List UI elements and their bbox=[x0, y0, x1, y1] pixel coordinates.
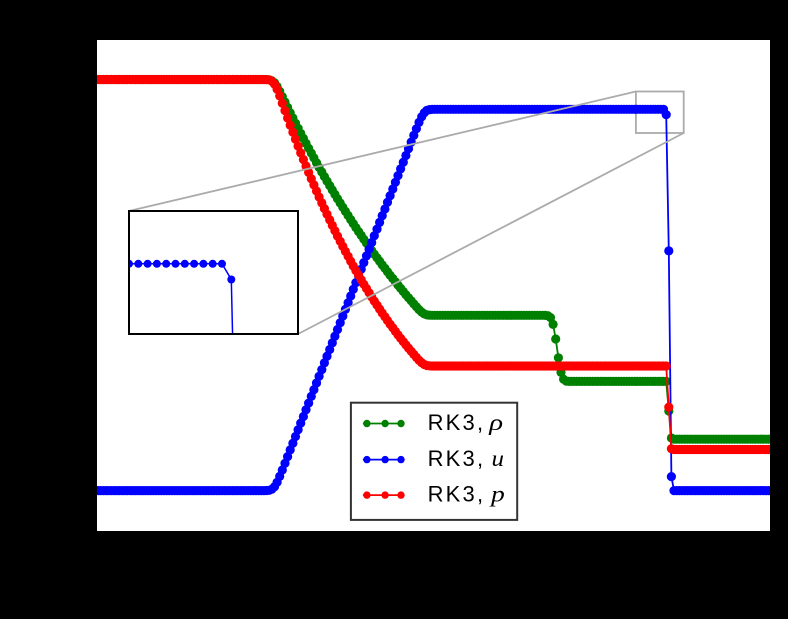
density curve RK3 rho (green) bbox=[94, 75, 774, 444]
zoom indicator rect bbox=[636, 92, 684, 134]
pressure curve RK3 p (red) bbox=[94, 75, 774, 454]
legend entry &#961; bbox=[363, 423, 403, 425]
svg-text:RK3,: RK3, bbox=[428, 446, 486, 471]
svg-text:RK3,: RK3, bbox=[428, 410, 486, 435]
svg-text:u: u bbox=[492, 446, 505, 472]
svg-text:ρ: ρ bbox=[488, 410, 503, 436]
inset curve (blue velocity detail) bbox=[116, 260, 306, 619]
inset connector lines bbox=[129, 92, 636, 212]
legend entry p bbox=[363, 494, 403, 496]
inset axes box bbox=[129, 211, 298, 334]
legend entry u bbox=[363, 459, 403, 461]
svg-text:RK3,: RK3, bbox=[428, 482, 486, 507]
velocity curve RK3 u (blue) bbox=[94, 105, 774, 496]
svg-text:p: p bbox=[489, 482, 505, 508]
plot background bbox=[97, 40, 770, 531]
legend box bbox=[351, 403, 517, 520]
